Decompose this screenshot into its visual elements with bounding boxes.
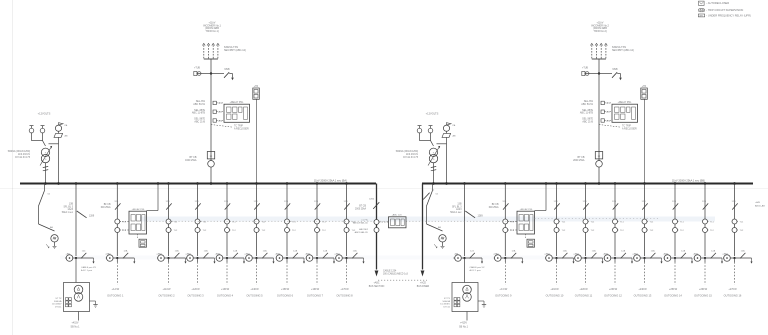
- svg-text:2000 25kA: 2000 25kA: [573, 159, 585, 162]
- svg-text:+22FW: +22FW: [579, 288, 588, 291]
- svg-text:OUTGOING 5: OUTGOING 5: [246, 293, 263, 297]
- svg-text:+AB2: +AB2: [185, 252, 191, 255]
- svg-text:TXFR No.2): TXFR No.2): [593, 30, 607, 33]
- svg-text:UFR: UFR: [699, 15, 704, 17]
- svg-text:11/0.433 kV: 11/0.433 kV: [18, 154, 31, 156]
- svg-text:12A: 12A: [323, 249, 327, 252]
- svg-text:BUS SECTION: BUS SECTION: [369, 286, 385, 288]
- svg-text:12B: 12B: [583, 201, 587, 203]
- svg-text:12A: 12A: [511, 249, 515, 252]
- svg-text:12A: 12A: [741, 249, 745, 252]
- svg-text:kA23: kA23: [456, 208, 462, 211]
- svg-text:50kA 1 sec: 50kA 1 sec: [62, 211, 74, 214]
- svg-text:11/.433kV: 11/.433kV: [440, 304, 450, 306]
- svg-text:+A.FW: +A.FW: [111, 288, 119, 291]
- svg-text:+AB2: +AB2: [305, 252, 311, 255]
- svg-text:+AB2: +AB2: [603, 252, 609, 255]
- svg-text:12A: 12A: [353, 249, 357, 252]
- svg-text:MSB: MSB: [225, 69, 230, 71]
- svg-text:12B: 12B: [166, 201, 170, 203]
- svg-text:ABCD-AB: ABCD-AB: [755, 204, 765, 207]
- svg-text:CABLE pair XX: CABLE pair XX: [81, 266, 96, 269]
- svg-text:+26FW: +26FW: [699, 288, 708, 291]
- svg-text:ABCDE2: ABCDE2: [359, 228, 369, 231]
- svg-text:+13FW: +13FW: [221, 288, 230, 291]
- svg-text:12B: 12B: [672, 201, 676, 203]
- svg-text:+16FW: +16FW: [311, 288, 320, 291]
- svg-text:OUTGOING 4: OUTGOING 4: [217, 293, 234, 297]
- svg-text:+12VOLTS: +12VOLTS: [38, 112, 51, 116]
- svg-text:12B: 12B: [612, 201, 616, 203]
- svg-text:OUTGOING 16: OUTGOING 16: [724, 293, 742, 297]
- svg-text:2000 25kA: 2000 25kA: [355, 208, 366, 211]
- svg-text:- UNDER FREQUENCY RELAY (UFR): - UNDER FREQUENCY RELAY (UFR): [706, 14, 751, 18]
- svg-text:300 (CABLE) ABCD 1x3: 300 (CABLE) ABCD 1x3: [383, 273, 408, 276]
- svg-text:+15FW: +15FW: [281, 288, 290, 291]
- svg-text:+14FW: +14FW: [250, 288, 259, 291]
- svg-text:+415V: +415V: [72, 322, 79, 325]
- svg-text:ABC 21-B: ABC 21-B: [582, 120, 593, 123]
- svg-text:12A: 12A: [651, 249, 655, 252]
- svg-text:+11FW: +11FW: [163, 288, 172, 291]
- svg-text:A.FC 1 pair: A.FC 1 pair: [470, 269, 481, 272]
- svg-text:+AB2: +AB2: [105, 252, 111, 255]
- svg-text:DYn11: DYn11: [443, 306, 450, 308]
- svg-text:12A: 12A: [681, 249, 685, 252]
- svg-text:OUTGOING 13: OUTGOING 13: [634, 293, 652, 297]
- svg-text:+RELAY PNL: +RELAY PNL: [519, 208, 533, 211]
- svg-text:+A/B: +A/B: [755, 201, 760, 204]
- svg-text:500kVA: 500kVA: [443, 300, 451, 303]
- svg-text:OUTGOING 15: OUTGOING 15: [694, 293, 712, 297]
- svg-text:SEC/PRT (ABC-12): SEC/PRT (ABC-12): [612, 49, 634, 52]
- svg-text:50kA 1 sec: 50kA 1 sec: [450, 211, 462, 214]
- svg-text:12B: 12B: [642, 201, 646, 203]
- svg-text:+415V: +415V: [460, 322, 467, 325]
- svg-text:TC TRIP: TC TRIP: [234, 126, 243, 128]
- svg-text:+12VOLTS: +12VOLTS: [426, 112, 439, 116]
- svg-text:OUTGOING 10: OUTGOING 10: [546, 293, 564, 297]
- svg-text:12B: 12B: [224, 201, 228, 203]
- svg-text:+ACD: +ACD: [420, 282, 427, 285]
- svg-text:+ABC 123: +ABC 123: [391, 214, 402, 217]
- svg-text:DYn11 Z=4.75: DYn11 Z=4.75: [403, 157, 418, 159]
- svg-text:12A: 12A: [175, 249, 179, 252]
- svg-text:BT CB: BT CB: [359, 206, 366, 208]
- svg-text:+RELAY PNL: +RELAY PNL: [230, 101, 244, 104]
- svg-text:SFL.BL 3: SFL.BL 3: [64, 206, 74, 208]
- svg-text:+RELAY PNL: +RELAY PNL: [618, 101, 632, 104]
- svg-text:OUTGOING 6: OUTGOING 6: [277, 293, 294, 297]
- svg-text:OUTGOING 8: OUTGOING 8: [336, 293, 353, 297]
- svg-text:12B: 12B: [502, 201, 506, 203]
- svg-text:BF CB: BF CB: [492, 204, 499, 206]
- svg-text:500kVA (ONAN 1250): 500kVA (ONAN 1250): [396, 150, 419, 153]
- svg-text:12B: 12B: [702, 201, 706, 203]
- svg-text:BF CB: BF CB: [104, 204, 111, 206]
- svg-text:SEC/PRT (ABC-12): SEC/PRT (ABC-12): [224, 49, 246, 52]
- svg-text:OUTGOING 7: OUTGOING 7: [307, 293, 324, 297]
- svg-text:12A: 12A: [204, 249, 208, 252]
- svg-text:11kV 2000A 25kA 1 sec (BA): 11kV 2000A 25kA 1 sec (BA): [314, 178, 347, 182]
- svg-text:11/0.433 kV: 11/0.433 kV: [406, 154, 419, 156]
- svg-text:kA23: kA23: [68, 208, 74, 211]
- svg-text:+RELAY PNL: +RELAY PNL: [131, 208, 145, 211]
- svg-text:A RECLOSER: A RECLOSER: [622, 127, 637, 130]
- svg-text:11/.433kV: 11/.433kV: [52, 304, 62, 306]
- svg-text:+AB2: +AB2: [244, 252, 250, 255]
- svg-text:ST TX: ST TX: [55, 298, 62, 300]
- svg-text:12A: 12A: [563, 249, 567, 252]
- svg-text:SB No.1: SB No.1: [71, 325, 81, 328]
- svg-text:+AB: +AB: [65, 252, 70, 255]
- svg-text:12A: 12A: [621, 249, 625, 252]
- svg-text:CABLE pair XX: CABLE pair XX: [470, 266, 485, 269]
- svg-text:600 25kA: 600 25kA: [101, 206, 111, 209]
- svg-text:+AB2: +AB2: [722, 252, 728, 255]
- svg-text:ABCD AB-CD: ABCD AB-CD: [355, 231, 369, 234]
- svg-text:1600 25kA: 1600 25kA: [185, 159, 197, 162]
- svg-text:OUTGOING 14: OUTGOING 14: [664, 293, 682, 297]
- svg-text:ABC 21-B: ABC 21-B: [194, 120, 205, 123]
- svg-text:OUTGOING 3: OUTGOING 3: [187, 293, 204, 297]
- svg-text:A.FC 1 pair: A.FC 1 pair: [81, 269, 92, 272]
- svg-text:12A: 12A: [123, 249, 127, 252]
- svg-text:500kVA (ONAN 1250): 500kVA (ONAN 1250): [8, 150, 31, 153]
- svg-text:SFL.BL 3: SFL.BL 3: [452, 206, 462, 208]
- svg-text:12B: 12B: [554, 201, 558, 203]
- svg-text:+TUB: +TUB: [194, 68, 200, 70]
- svg-text:12A: 12A: [293, 249, 297, 252]
- svg-text:600 25kA: 600 25kA: [489, 206, 499, 209]
- svg-text:+AB2: +AB2: [334, 252, 340, 255]
- svg-text:+TUB: +TUB: [582, 68, 588, 70]
- svg-text:+24FW: +24FW: [638, 288, 647, 291]
- svg-text:+27FW: +27FW: [728, 288, 737, 291]
- svg-text:ABC 50-51: ABC 50-51: [193, 103, 205, 106]
- svg-text:CABLE 1234: CABLE 1234: [383, 269, 397, 272]
- svg-text:+AB2: +AB2: [156, 252, 162, 255]
- svg-text:13B: 13B: [69, 204, 74, 206]
- svg-text:ABCDE AB-CD: ABCDE AB-CD: [353, 222, 368, 225]
- svg-text:BUS RISER: BUS RISER: [417, 286, 430, 288]
- svg-text:+C.FW: +C.FW: [499, 288, 507, 291]
- svg-text:12B: 12B: [254, 201, 258, 203]
- svg-text:13B: 13B: [457, 204, 462, 206]
- svg-text:TC TRIP: TC TRIP: [622, 126, 631, 128]
- svg-text:+17FW: +17FW: [340, 288, 349, 291]
- svg-text:+12FW: +12FW: [191, 288, 200, 291]
- svg-text:12A: 12A: [592, 249, 596, 252]
- svg-text:OUTGOING 12: OUTGOING 12: [604, 293, 622, 297]
- svg-text:DYn11 Z=4.75: DYn11 Z=4.75: [15, 157, 30, 159]
- svg-text:DYn11: DYn11: [55, 306, 62, 308]
- svg-text:OUTGOING 9: OUTGOING 9: [495, 293, 512, 297]
- svg-text:1289: 1289: [478, 216, 484, 218]
- svg-text:+ABC: +ABC: [373, 282, 379, 285]
- svg-text:+21FW: +21FW: [550, 288, 559, 291]
- svg-text:+AB2: +AB2: [544, 252, 550, 255]
- svg-text:+AB2: +AB2: [573, 252, 579, 255]
- svg-text:A RECLOSER: A RECLOSER: [234, 127, 249, 130]
- svg-text:OUTGOING 11: OUTGOING 11: [575, 293, 593, 297]
- svg-text:- TRIP CIRCUIT SUPERVISION: - TRIP CIRCUIT SUPERVISION: [706, 8, 743, 12]
- svg-text:MSB: MSB: [613, 69, 618, 71]
- svg-text:+AB: +AB: [454, 252, 459, 255]
- svg-text:OUTGOING 1: OUTGOING 1: [107, 293, 124, 297]
- svg-text:+25FW: +25FW: [669, 288, 678, 291]
- svg-text:12A: 12A: [711, 249, 715, 252]
- svg-text:TXFR No.1): TXFR No.1): [205, 30, 219, 33]
- svg-text:+AB2: +AB2: [693, 252, 699, 255]
- svg-text:12B: 12B: [314, 201, 318, 203]
- svg-text:12A: 12A: [233, 249, 237, 252]
- svg-text:12B: 12B: [195, 201, 199, 203]
- svg-text:+AB2: +AB2: [215, 252, 221, 255]
- svg-text:SB No.1: SB No.1: [459, 325, 469, 328]
- svg-text:12B: 12B: [284, 201, 288, 203]
- svg-text:ST TX: ST TX: [444, 298, 451, 300]
- svg-text:12A: 12A: [263, 249, 267, 252]
- svg-text:+AB2: +AB2: [632, 252, 638, 255]
- svg-text:ABC 11-87B: ABC 11-87B: [580, 112, 594, 115]
- svg-text:12B: 12B: [344, 201, 348, 203]
- svg-text:12B: 12B: [114, 201, 118, 203]
- svg-text:11kV 2000A 25kA 1 sec (BB): 11kV 2000A 25kA 1 sec (BB): [672, 178, 705, 182]
- svg-text:ABC 11-87B: ABC 11-87B: [192, 112, 206, 115]
- svg-text:1289: 1289: [89, 216, 95, 218]
- svg-text:+23FW: +23FW: [609, 288, 618, 291]
- svg-text:12B: 12B: [732, 201, 736, 203]
- svg-text:+AB2: +AB2: [493, 252, 499, 255]
- svg-text:1 x?TL: 1 x?TL: [361, 220, 368, 222]
- svg-text:+AB2: +AB2: [275, 252, 281, 255]
- svg-text:OUTGOING 2: OUTGOING 2: [158, 293, 175, 297]
- svg-text:- AUTORECLOSER: - AUTORECLOSER: [706, 1, 729, 5]
- svg-text:12B4: 12B4: [369, 199, 375, 201]
- svg-text:ABC 50-51: ABC 50-51: [581, 103, 593, 106]
- svg-text:+AB2: +AB2: [663, 252, 669, 255]
- svg-text:500kVA: 500kVA: [54, 300, 62, 303]
